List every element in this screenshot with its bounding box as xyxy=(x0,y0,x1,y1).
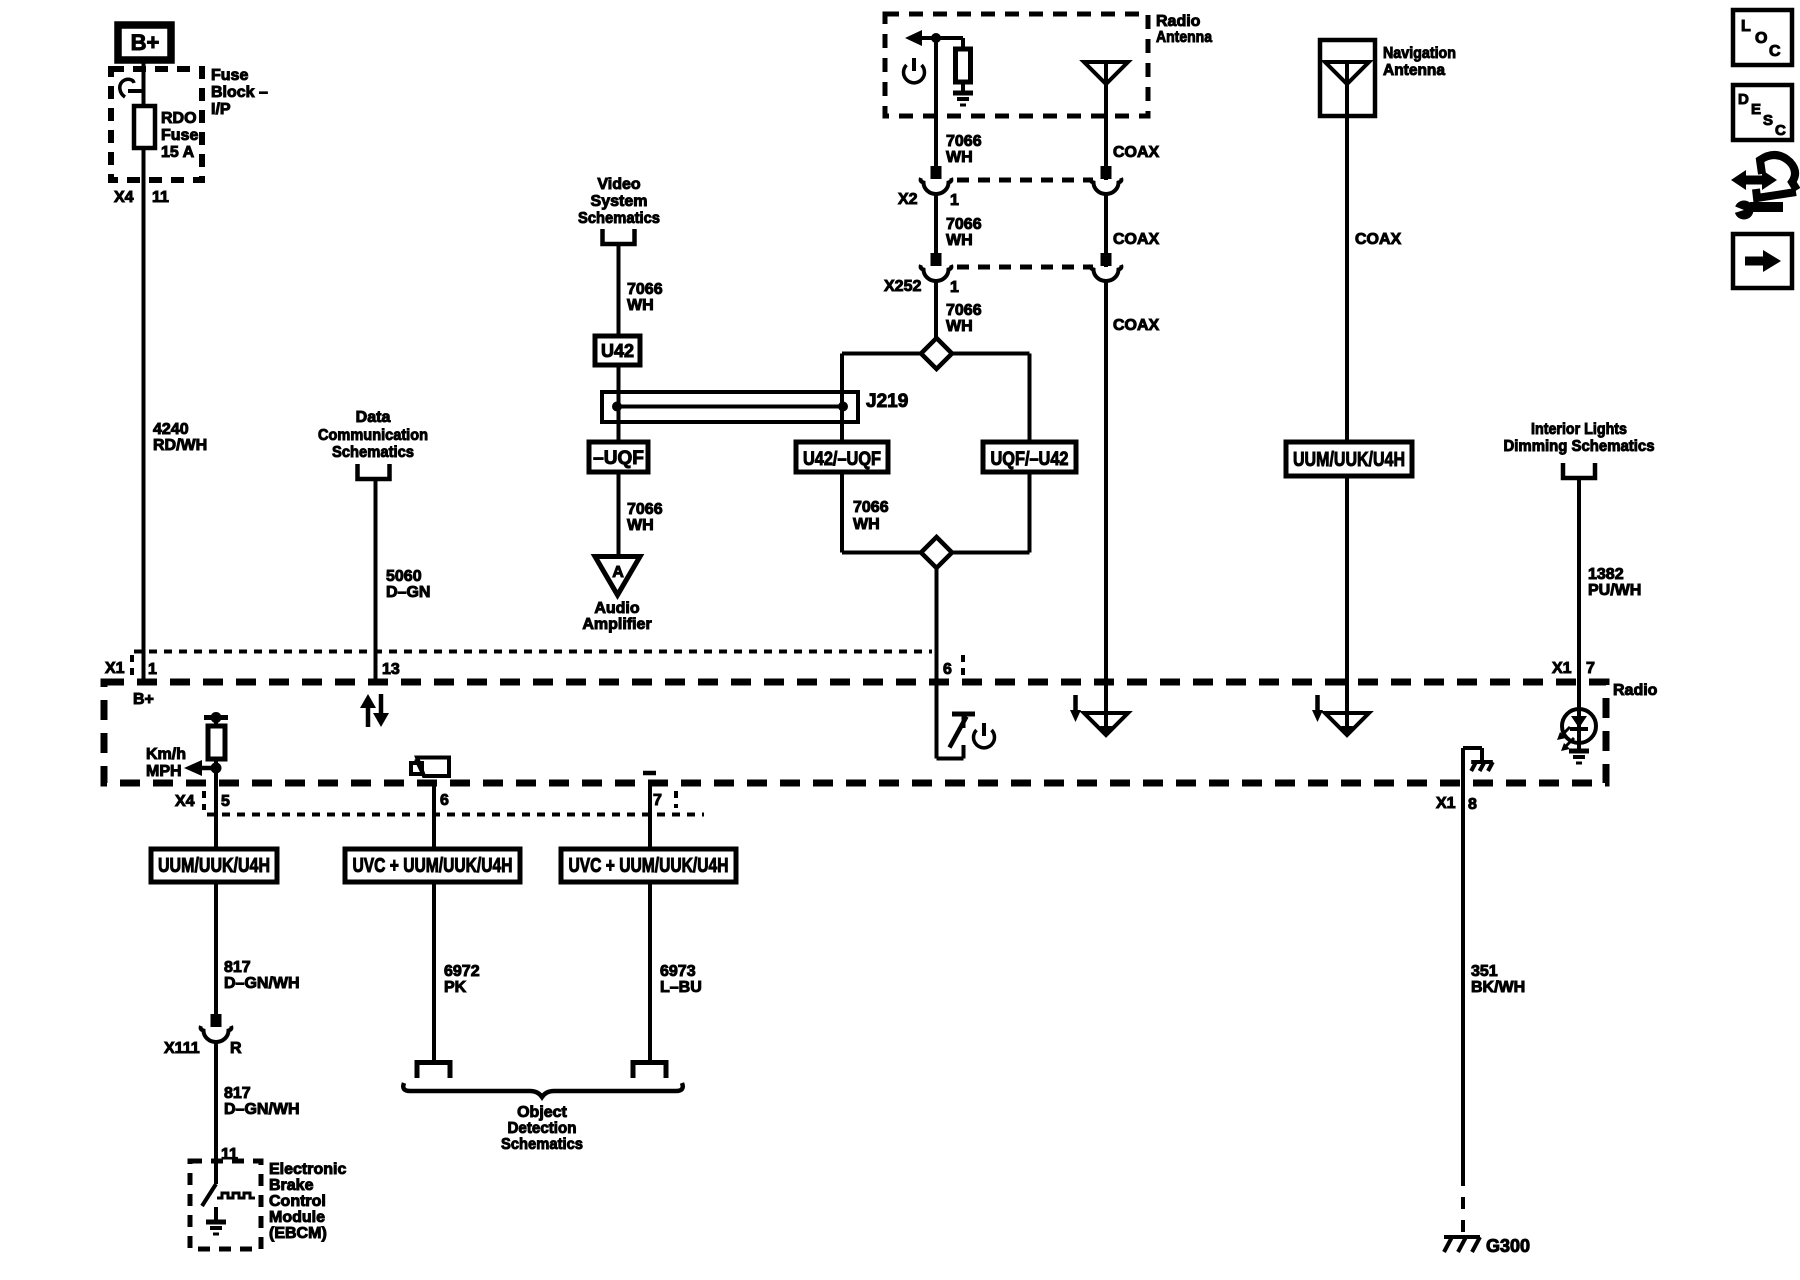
svg-text:COAX: COAX xyxy=(1113,144,1160,161)
fuse RDO 15A xyxy=(134,106,155,148)
connector labels X4 pins 5 6 7 xyxy=(175,792,662,810)
label: Radio xyxy=(1613,682,1658,699)
wire label 1382 PU/WH xyxy=(1588,566,1641,599)
svg-text:UUM/UUK/U4H: UUM/UUK/U4H xyxy=(1293,449,1405,471)
svg-text:R: R xyxy=(230,1040,242,1057)
battery feed B+ box xyxy=(118,25,171,60)
radio dashed box xyxy=(104,682,1606,783)
off-page connector: data communication xyxy=(358,464,390,479)
svg-text:RDO: RDO xyxy=(161,110,197,127)
wire: radio pin 8 to G300 (351 BK/WH) xyxy=(1461,783,1465,1233)
LED light arrows xyxy=(1557,727,1574,751)
svg-text:O: O xyxy=(1755,30,1767,47)
svg-text:Fuse: Fuse xyxy=(161,127,198,144)
icon: DESC box xyxy=(1733,85,1792,140)
svg-text:E: E xyxy=(1751,101,1761,118)
svg-text:Antenna: Antenna xyxy=(1156,29,1212,46)
svg-text:7066: 7066 xyxy=(853,499,889,516)
svg-text:X1: X1 xyxy=(1436,795,1456,812)
svg-text:A: A xyxy=(612,564,624,581)
ground G300 chassis symbol xyxy=(1444,1237,1480,1252)
svg-text:817: 817 xyxy=(224,959,251,976)
svg-text:8: 8 xyxy=(1468,796,1477,813)
svg-text:BK/WH: BK/WH xyxy=(1471,979,1525,996)
svg-text:1: 1 xyxy=(950,192,959,209)
resistor to ground (antenna box) xyxy=(953,38,973,105)
svg-text:L–BU: L–BU xyxy=(660,979,702,996)
option box UUM/UUK/U4H (left) xyxy=(151,849,277,882)
svg-text:G300: G300 xyxy=(1486,1236,1530,1256)
EBCM dashed box xyxy=(190,1161,261,1249)
option box U42 xyxy=(595,336,640,365)
icon: wiring navigation (arrows + route + wrench) xyxy=(1729,155,1797,220)
svg-text:X1: X1 xyxy=(105,660,125,677)
label COAX xyxy=(1113,317,1160,334)
svg-text:7066: 7066 xyxy=(627,501,663,518)
radio internal: serial data arrows (pin 13) xyxy=(360,694,389,727)
label G300 xyxy=(1486,1236,1530,1256)
svg-text:Antenna: Antenna xyxy=(1383,62,1445,79)
wire: B+ to fuse block xyxy=(142,60,146,106)
svg-text:Detection: Detection xyxy=(508,1120,577,1137)
svg-text:Video: Video xyxy=(597,176,641,193)
svg-text:PK: PK xyxy=(444,979,467,996)
svg-text:C: C xyxy=(1769,43,1781,60)
svg-text:I/P: I/P xyxy=(211,101,231,118)
label: Object Detection Schematics xyxy=(501,1104,583,1153)
icon: LOC box xyxy=(1733,10,1792,65)
inline connector X252 pin 1 xyxy=(884,253,1121,296)
svg-text:Brake: Brake xyxy=(269,1177,314,1194)
COAX down to radio xyxy=(1104,281,1108,682)
label Km/h MPH xyxy=(146,746,186,780)
svg-text:Amplifier: Amplifier xyxy=(582,616,651,633)
wire: diamond right branch xyxy=(952,354,1030,443)
svg-text:U42/–UQF: U42/–UQF xyxy=(803,449,881,470)
svg-text:WH: WH xyxy=(627,517,654,534)
svg-text:System: System xyxy=(591,193,648,210)
label: RDO Fuse 15 A xyxy=(161,110,198,161)
svg-text:D–GN: D–GN xyxy=(386,584,430,601)
EBCM internal: ground xyxy=(206,1207,226,1234)
svg-text:–UQF: –UQF xyxy=(593,448,644,469)
svg-text:6972: 6972 xyxy=(444,963,480,980)
svg-text:11: 11 xyxy=(152,189,169,206)
wire label 7066 WH (audio) xyxy=(627,501,663,534)
EBCM internal: switch lever xyxy=(202,1161,216,1206)
wire label 7066 WH (video) xyxy=(627,281,663,314)
radio internal: chassis ground (pin 8) xyxy=(1463,748,1493,783)
wire label 7066 WH xyxy=(946,302,982,335)
option box U42/-UQF xyxy=(796,442,888,472)
radio internal: dimming LED (pin 7) xyxy=(1562,682,1596,763)
audio amplifier triangle A xyxy=(595,557,640,596)
combiner diamond (bottom) xyxy=(921,537,952,568)
wire: data comm to radio pin 13 (5060 D-GN) xyxy=(374,479,378,681)
svg-text:7: 7 xyxy=(1586,660,1595,677)
svg-text:WH: WH xyxy=(627,297,654,314)
splitter diamond (top) xyxy=(921,338,952,369)
EBCM internal: coil zigzag xyxy=(217,1193,255,1198)
svg-text:X252: X252 xyxy=(884,278,921,295)
radio internal: nav antenna receiver symbol xyxy=(1312,682,1369,737)
svg-text:4240: 4240 xyxy=(153,421,189,438)
brace: object detection xyxy=(403,1083,683,1097)
wire label 7066 WH (left branch) xyxy=(853,499,889,533)
svg-text:D: D xyxy=(1738,91,1749,108)
svg-text:WH: WH xyxy=(946,232,973,249)
option box UVC + UUM/UUK/U4H (1) xyxy=(345,849,520,882)
wire: branches rejoin at bottom diamond xyxy=(842,472,921,553)
wire label 7066 WH xyxy=(946,133,982,166)
connector labels X1 pins 7,8 (right) xyxy=(1436,660,1595,813)
option box -UQF xyxy=(589,442,648,472)
svg-text:Km/h: Km/h xyxy=(146,746,186,763)
svg-text:UQF/–U42: UQF/–U42 xyxy=(991,449,1069,470)
svg-text:U42: U42 xyxy=(601,341,634,361)
COAX: nav antenna to radio xyxy=(1345,116,1349,682)
label J219 xyxy=(866,391,908,412)
radio internal: speed signal resistor xyxy=(204,712,228,783)
label B+ (radio pin 1) xyxy=(133,691,154,708)
svg-text:1382: 1382 xyxy=(1588,566,1624,583)
wire: U42 through J219 to -UQF xyxy=(617,365,621,442)
wire: radio pin 6 to UVC box 1 xyxy=(432,786,436,849)
svg-text:COAX: COAX xyxy=(1113,317,1160,334)
svg-text:1: 1 xyxy=(950,279,959,296)
COAX X2 to X252 xyxy=(1104,194,1108,267)
svg-text:817: 817 xyxy=(224,1085,251,1102)
svg-text:(EBCM): (EBCM) xyxy=(269,1225,327,1242)
svg-text:Interior Lights: Interior Lights xyxy=(1531,421,1627,438)
wire label 351 BK/WH xyxy=(1471,963,1525,996)
svg-text:7066: 7066 xyxy=(946,216,982,233)
label: Electronic Brake Control Module (EBCM) xyxy=(269,1161,346,1242)
wire: radio pin 7 to UVC box 2 xyxy=(648,786,652,849)
inline connector X2 pin 1 xyxy=(898,166,1121,209)
svg-text:WH: WH xyxy=(946,149,973,166)
svg-text:X111: X111 xyxy=(164,1040,200,1057)
radio antenna dashed box xyxy=(885,14,1148,116)
wire: interior lights to radio pin 7 (1382 PU/WH) xyxy=(1577,478,1581,682)
label COAX xyxy=(1355,231,1402,248)
label COAX xyxy=(1113,231,1160,248)
svg-text:B+: B+ xyxy=(131,30,160,55)
svg-text:D–GN/WH: D–GN/WH xyxy=(224,1101,300,1118)
connector labels X1 pins 1 13 6 xyxy=(105,660,952,678)
svg-text:WH: WH xyxy=(853,516,880,533)
wire label 817 D-GN/WH xyxy=(224,959,300,992)
label: Navigation Antenna xyxy=(1383,45,1456,79)
svg-text:Module: Module xyxy=(269,1209,325,1226)
label: Radio Antenna xyxy=(1156,13,1212,46)
svg-text:S: S xyxy=(1763,112,1773,129)
inline connector X111 pin R xyxy=(164,1014,242,1057)
svg-text:Data: Data xyxy=(356,409,391,426)
wire label 817 D-GN/WH xyxy=(224,1085,300,1118)
svg-text:X2: X2 xyxy=(898,191,918,208)
svg-text:X4: X4 xyxy=(114,189,134,206)
svg-text:D–GN/WH: D–GN/WH xyxy=(224,975,300,992)
wire: X111 to EBCM (817 D-GN/WH) xyxy=(214,1042,218,1161)
wire: -UQF to audio amplifier (7066 WH) xyxy=(617,472,621,556)
wire: X2 to X252 (7066 WH) xyxy=(934,194,938,253)
option box UQF/-U42 xyxy=(983,442,1076,472)
svg-text:5: 5 xyxy=(221,793,230,810)
svg-text:L: L xyxy=(1741,18,1751,35)
fuse element hook xyxy=(120,79,144,97)
wire: UUM box to X111 (817 D-GN/WH) xyxy=(214,882,218,1014)
option box UVC + UUM/UUK/U4H (2) xyxy=(561,849,736,882)
svg-text:Radio: Radio xyxy=(1613,682,1658,699)
svg-text:Radio: Radio xyxy=(1156,13,1201,30)
antenna mast symbol (in antenna box) xyxy=(1084,62,1128,116)
svg-text:7066: 7066 xyxy=(946,302,982,319)
wire: fuse to radio pin 1 (4240 RD/WH) xyxy=(142,148,146,681)
icon: continue arrow box xyxy=(1733,234,1792,288)
connector X4 dotted line (pins 5,6,7) xyxy=(204,791,704,815)
svg-text:B+: B+ xyxy=(133,691,154,708)
svg-text:UVC + UUM/UUK/U4H: UVC + UUM/UUK/U4H xyxy=(353,855,513,877)
svg-text:UVC + UUM/UUK/U4H: UVC + UUM/UUK/U4H xyxy=(569,855,729,877)
wire: diamond to radio pin 6 xyxy=(935,568,939,682)
label: Interior Lights Dimming Schematics xyxy=(1504,421,1655,455)
svg-text:7066: 7066 xyxy=(946,133,982,150)
radio internal: Km/h MPH arrow xyxy=(184,760,222,776)
label: Data Communication Schematics xyxy=(318,409,428,461)
wire: diamond left branch xyxy=(842,354,921,443)
minus sign (radio pin 7) xyxy=(643,771,656,776)
camera icon (radio pin 6 object detection) xyxy=(411,758,449,777)
half-box terminal 2 xyxy=(633,1063,666,1079)
wire label 7066 WH xyxy=(946,216,982,249)
svg-text:MPH: MPH xyxy=(146,763,182,780)
radio internal: radio antenna receiver symbol xyxy=(1070,682,1128,737)
wire label 6973 L-BU xyxy=(660,963,702,996)
label: Video System Schematics xyxy=(578,176,660,227)
svg-text:PU/WH: PU/WH xyxy=(1588,582,1641,599)
radio internal: power switch (pin 6) xyxy=(937,682,976,759)
svg-text:Control: Control xyxy=(269,1193,326,1210)
svg-text:Navigation: Navigation xyxy=(1383,45,1456,62)
radio internal: power symbol xyxy=(974,723,995,748)
svg-text:1: 1 xyxy=(148,661,157,678)
svg-text:Block –: Block – xyxy=(211,84,268,101)
svg-text:13: 13 xyxy=(382,661,400,678)
label: Fuse Block - I/P xyxy=(211,67,268,118)
svg-text:6: 6 xyxy=(943,661,952,678)
svg-text:Communication: Communication xyxy=(318,427,428,444)
svg-text:15 A: 15 A xyxy=(161,144,195,161)
wire: antenna lead down to X2 (7066 WH) xyxy=(934,38,938,166)
svg-text:Schematics: Schematics xyxy=(332,444,414,461)
fuse block I/P dashed box xyxy=(111,69,202,180)
label: Audio Amplifier xyxy=(582,600,651,633)
svg-text:7066: 7066 xyxy=(627,281,663,298)
svg-text:Electronic: Electronic xyxy=(269,1161,346,1178)
off-page connector: video system xyxy=(603,229,635,244)
svg-text:Object: Object xyxy=(517,1104,567,1121)
svg-text:Dimming Schematics: Dimming Schematics xyxy=(1504,438,1655,455)
svg-text:Fuse: Fuse xyxy=(211,67,248,84)
svg-text:6973: 6973 xyxy=(660,963,696,980)
svg-text:5060: 5060 xyxy=(386,568,422,585)
wire: radio pin 5 to UUM/UUK/U4H box xyxy=(214,783,218,849)
svg-text:Audio: Audio xyxy=(594,600,640,617)
svg-text:6: 6 xyxy=(440,792,449,809)
connector X4 pin 11 labels xyxy=(114,189,169,206)
wire: UVC box1 down (6972 PK) xyxy=(432,882,436,1060)
half-box terminal 1 xyxy=(417,1063,450,1079)
junction dot xyxy=(931,33,941,43)
off-page connector: interior lights xyxy=(1563,463,1595,478)
EBCM pin 11 label xyxy=(221,1146,238,1163)
wire: X252 to splitter diamond (7066 WH) xyxy=(934,281,938,339)
svg-text:X4: X4 xyxy=(175,793,195,810)
svg-text:RD/WH: RD/WH xyxy=(153,437,207,454)
power symbol (antenna box) xyxy=(904,58,925,83)
COAX lead down to X2 xyxy=(1104,116,1108,180)
svg-text:Schematics: Schematics xyxy=(501,1136,583,1153)
navigation antenna box xyxy=(1320,40,1375,116)
svg-text:COAX: COAX xyxy=(1113,231,1160,248)
svg-text:X1: X1 xyxy=(1552,660,1572,677)
wire label 6972 PK xyxy=(444,963,480,996)
svg-text:351: 351 xyxy=(1471,963,1498,980)
connector X1 dotted line (pins 1,13,6) xyxy=(132,652,963,679)
svg-text:UUM/UUK/U4H: UUM/UUK/U4H xyxy=(158,855,270,877)
wire label 5060 D-GN xyxy=(386,568,430,601)
antenna feed arrow (left) xyxy=(905,30,963,46)
wire: UVC box2 down (6973 L-BU) xyxy=(648,882,652,1060)
wire label 4240 RD/WH xyxy=(153,421,207,454)
wire: video to U42 (7066 WH) xyxy=(617,244,621,336)
svg-text:J219: J219 xyxy=(866,391,908,412)
svg-text:COAX: COAX xyxy=(1355,231,1402,248)
option box UUM/UUK/U4H (nav) xyxy=(1286,442,1412,476)
label COAX xyxy=(1113,144,1160,161)
svg-text:Schematics: Schematics xyxy=(578,210,660,227)
svg-text:7: 7 xyxy=(653,792,662,809)
splice pack J219 xyxy=(602,392,858,422)
svg-text:C: C xyxy=(1775,122,1786,139)
svg-text:WH: WH xyxy=(946,318,973,335)
